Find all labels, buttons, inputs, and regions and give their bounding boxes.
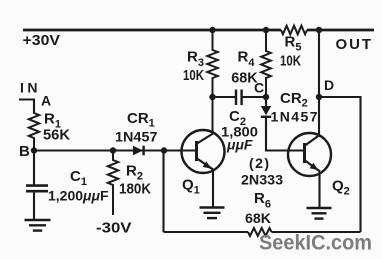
wire Q2 emitter to ground xyxy=(318,172,320,208)
svg-text:(2): (2) xyxy=(249,155,269,171)
transistor Q1 circle xyxy=(182,130,225,173)
svg-text:R2: R2 xyxy=(126,163,143,183)
wire top rail right segment to OUT xyxy=(307,29,374,32)
svg-text:68K: 68K xyxy=(231,70,258,87)
ground under C1 xyxy=(25,220,51,231)
svg-text:CR2: CR2 xyxy=(280,90,308,110)
svg-text:1N457: 1N457 xyxy=(271,109,318,125)
wire +30V top rail left segment xyxy=(23,29,281,32)
svg-text:Q2: Q2 xyxy=(332,178,350,198)
junction dot Q2 collector top on rail xyxy=(316,27,322,33)
wire node D right and down feedback loop xyxy=(319,97,361,232)
wire IN stub xyxy=(19,100,34,113)
svg-text:10K: 10K xyxy=(280,53,301,70)
svg-text:A: A xyxy=(41,93,51,109)
svg-text:68K: 68K xyxy=(245,210,271,226)
junction dot R4 top on rail xyxy=(263,27,269,33)
wire B to C1 top plate xyxy=(33,151,35,186)
svg-text:10K: 10K xyxy=(183,67,204,84)
wire collector tap to C2 xyxy=(213,96,237,98)
wire feedback left vertical xyxy=(162,151,164,233)
svg-text:2N333: 2N333 xyxy=(241,172,283,188)
transistor Q2 emitter diagonal with arrow xyxy=(305,161,320,172)
node D junction dot xyxy=(316,94,322,100)
svg-text:1,200μμF: 1,200μμF xyxy=(48,188,109,204)
svg-text:B: B xyxy=(19,143,30,160)
svg-text:μμF: μμF xyxy=(226,137,253,153)
svg-text:C1: C1 xyxy=(70,168,87,188)
junction dot feedback tap xyxy=(161,147,167,153)
wire Q2 collector up to rail xyxy=(318,30,320,135)
capacitor C2 xyxy=(236,90,242,106)
transistor Q1 collector diagonal xyxy=(197,134,213,144)
resistor R6 xyxy=(248,228,272,236)
wire Q1 collector + resistor R3 up to rail xyxy=(207,30,217,134)
transistor Q2 collector diagonal xyxy=(305,135,320,146)
wire C2 to node C xyxy=(242,96,266,98)
junction dot R2 tap xyxy=(110,147,116,153)
resistor R5 zigzag in rail xyxy=(281,26,307,35)
svg-text:56K: 56K xyxy=(43,128,71,144)
transistor Q2 base bar xyxy=(303,143,306,163)
transistor Q2 circle xyxy=(288,133,331,176)
wire C1 bottom plate to ground xyxy=(33,192,35,220)
svg-text:R4: R4 xyxy=(238,48,256,69)
junction dot R3 top on rail xyxy=(209,27,215,33)
svg-text:1N457: 1N457 xyxy=(115,129,158,145)
ground under Q2 xyxy=(307,208,332,219)
svg-text:-30V: -30V xyxy=(96,220,132,237)
transistor Q1 base bar xyxy=(195,141,198,161)
svg-text:IN: IN xyxy=(20,80,38,96)
resistor R2 xyxy=(108,151,118,216)
svg-text:R6: R6 xyxy=(254,190,271,211)
wire bottom left segment xyxy=(164,231,249,233)
diode CR2 with wire node C down to Q2 base xyxy=(261,97,305,151)
svg-text:D: D xyxy=(324,77,334,93)
resistor R4 from rail to node C xyxy=(261,30,271,97)
transistor Q1 emitter diagonal with arrow xyxy=(197,159,214,170)
capacitor C1 xyxy=(26,186,48,192)
svg-text:CR1: CR1 xyxy=(127,110,155,130)
wire node B horizontal to Q1 base xyxy=(34,149,197,151)
svg-text:180K: 180K xyxy=(119,181,151,198)
resistor R1 xyxy=(29,112,39,151)
svg-text:R5: R5 xyxy=(285,34,302,54)
diode CR1 xyxy=(133,146,144,156)
svg-text:Q1: Q1 xyxy=(182,177,200,197)
junction dot C2 tap on collector line xyxy=(209,94,215,100)
ground under Q1 xyxy=(200,208,225,219)
wire Q1 emitter to ground xyxy=(212,170,214,207)
node B junction dot xyxy=(31,147,37,153)
svg-text:OUT: OUT xyxy=(336,36,372,53)
svg-text:SeekIC.com: SeekIC.com xyxy=(259,231,372,255)
svg-text:+30V: +30V xyxy=(23,32,61,49)
node C junction dot xyxy=(263,94,269,100)
svg-text:R3: R3 xyxy=(187,48,204,69)
wire bottom right segment xyxy=(272,231,361,233)
